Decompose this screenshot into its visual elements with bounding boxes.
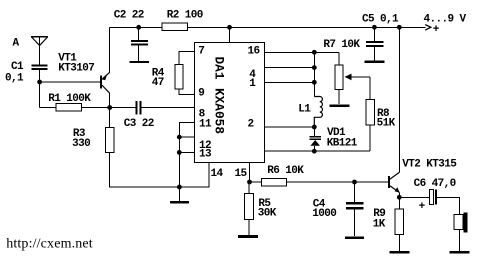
wire R6 to VT2 base xyxy=(287,181,389,183)
supply arrowhead xyxy=(425,25,431,31)
ground for C4 xyxy=(345,236,364,239)
op-amp U1: IC DA1 KXA058 box xyxy=(195,42,265,162)
ground symbol main xyxy=(170,187,189,202)
wire pin 13 stub xyxy=(179,151,195,153)
svg-text:+: + xyxy=(419,201,426,213)
resistor R8 xyxy=(366,77,374,151)
svg-text:13: 13 xyxy=(199,149,212,161)
wire pin 2 stub xyxy=(264,126,314,128)
svg-text:KXA058: KXA058 xyxy=(211,88,226,134)
svg-text:VT2 KT315: VT2 KT315 xyxy=(402,158,457,170)
wire junction to pin 14 xyxy=(179,163,209,188)
node VT2 emitter xyxy=(397,195,402,200)
node C5 on rail xyxy=(372,25,377,30)
svg-text:2: 2 xyxy=(248,119,254,131)
ground for speaker xyxy=(450,251,470,254)
node VT2 collector on rail xyxy=(397,25,402,30)
resistor R5 xyxy=(245,182,254,235)
node L1 bottom / pin 2 xyxy=(312,125,317,130)
node ground junction xyxy=(177,185,182,190)
capacitor C2 xyxy=(131,27,148,61)
resistor R6 xyxy=(250,178,287,186)
ground for C5 xyxy=(365,61,385,63)
wire pin 15 stub down xyxy=(249,162,251,182)
wire rail down to IC xyxy=(229,27,231,42)
svg-text:1000: 1000 xyxy=(312,208,336,220)
node: C1/base junction xyxy=(37,80,42,85)
svg-text:R2 100: R2 100 xyxy=(167,9,203,21)
capacitor C6 electrolytic xyxy=(430,190,436,205)
capacitor C3 xyxy=(136,101,140,115)
transistor VT2 KT315 xyxy=(389,172,400,197)
svg-text:DA1: DA1 xyxy=(211,56,226,79)
node pin1 xyxy=(312,80,317,85)
wire R1 to collector junction xyxy=(82,107,110,109)
svg-text:1: 1 xyxy=(249,78,256,90)
wire R3 bottom to ground junction xyxy=(110,152,180,187)
node C4 junction xyxy=(352,180,357,185)
svg-text:7: 7 xyxy=(198,46,204,58)
wire: top supply rail xyxy=(110,26,426,28)
wire C6 to speaker xyxy=(437,197,459,214)
svg-text:9: 9 xyxy=(198,88,204,100)
svg-text:14: 14 xyxy=(211,168,224,180)
svg-text:A: A xyxy=(13,38,20,50)
wire junction down to R1 xyxy=(39,82,41,108)
svg-text:C3 22: C3 22 xyxy=(124,118,154,130)
svg-text:R1 100K: R1 100K xyxy=(48,93,91,105)
svg-text:C6 47,0: C6 47,0 xyxy=(414,178,456,190)
speaker BA xyxy=(454,213,468,252)
svg-text:4...9 V: 4...9 V xyxy=(424,13,467,25)
resistor R9 xyxy=(395,197,403,251)
wire to R1 left lead xyxy=(40,107,56,109)
svg-text:16: 16 xyxy=(248,46,260,58)
wire C3 to pin 8 xyxy=(141,107,195,109)
wire IC edge to R8 bottom xyxy=(264,150,370,152)
wire collector junction to C3 xyxy=(110,107,136,109)
resistor R4 xyxy=(175,65,183,89)
svg-text:1K: 1K xyxy=(373,218,386,230)
resistor R2 xyxy=(162,23,188,30)
svg-text:11: 11 xyxy=(199,119,212,131)
svg-text:R7 10K: R7 10K xyxy=(323,39,360,51)
svg-text:+: + xyxy=(433,24,440,36)
resistor R3 xyxy=(105,128,114,153)
svg-text:51K: 51K xyxy=(377,117,396,129)
transistor VT1 KT3107 xyxy=(101,27,110,107)
ground for C2 xyxy=(129,61,149,63)
svg-text:C2 22: C2 22 xyxy=(114,9,144,21)
svg-text:330: 330 xyxy=(72,138,90,150)
svg-text:KT3107: KT3107 xyxy=(58,62,94,74)
wire junction to VT1 base xyxy=(40,81,101,83)
wire pin 4 stub xyxy=(264,67,314,69)
node: R1/VT1 collector junction xyxy=(107,105,112,110)
svg-text:http://cxem.net: http://cxem.net xyxy=(6,236,93,251)
wire emitter to C6 xyxy=(399,196,429,198)
resistor R1 xyxy=(56,104,82,111)
svg-text:47: 47 xyxy=(152,77,164,89)
wire pin 11 stub xyxy=(179,123,195,187)
inductor L1 xyxy=(314,97,322,128)
svg-text:L1: L1 xyxy=(298,104,311,116)
wire column down to L1 xyxy=(313,52,315,96)
svg-text:C1: C1 xyxy=(11,61,24,73)
svg-text:KB121: KB121 xyxy=(327,138,358,150)
diode VD1 KB121 varicap xyxy=(309,127,321,151)
node pin 12 junction xyxy=(177,135,182,140)
capacitor C5 xyxy=(366,27,384,60)
node pin 13 junction xyxy=(177,150,182,155)
wire collector down xyxy=(398,27,400,172)
node pin4 xyxy=(312,65,317,70)
ground for R5 xyxy=(238,235,258,238)
node pin 15 junction xyxy=(247,180,252,185)
wire pin 1 stub xyxy=(264,81,314,83)
node: C2 junction on rail xyxy=(136,25,141,30)
wire R4 to pin 9 xyxy=(179,89,195,94)
resistor R7 trimmer xyxy=(335,52,370,104)
capacitor C1 xyxy=(32,66,48,83)
wire pin 16 stub to R7 xyxy=(264,51,339,53)
svg-text:0,1: 0,1 xyxy=(5,73,24,85)
node VD1 bottom xyxy=(312,149,317,154)
svg-text:C5 0,1: C5 0,1 xyxy=(362,13,399,25)
node pin16/L1 column xyxy=(312,50,317,55)
ground for R7 xyxy=(329,105,349,108)
capacitor C4 xyxy=(346,182,364,236)
svg-text:15: 15 xyxy=(235,168,248,180)
svg-text:R6 10K: R6 10K xyxy=(267,165,304,177)
node: rail to IC top xyxy=(227,25,232,30)
antenna A xyxy=(31,37,48,65)
wire R3 top to junction xyxy=(109,108,111,128)
ground for R9 xyxy=(390,251,410,254)
svg-text:30K: 30K xyxy=(258,207,277,219)
wire pin 7 stub xyxy=(179,52,195,65)
wire pin 12 stub xyxy=(179,136,195,138)
